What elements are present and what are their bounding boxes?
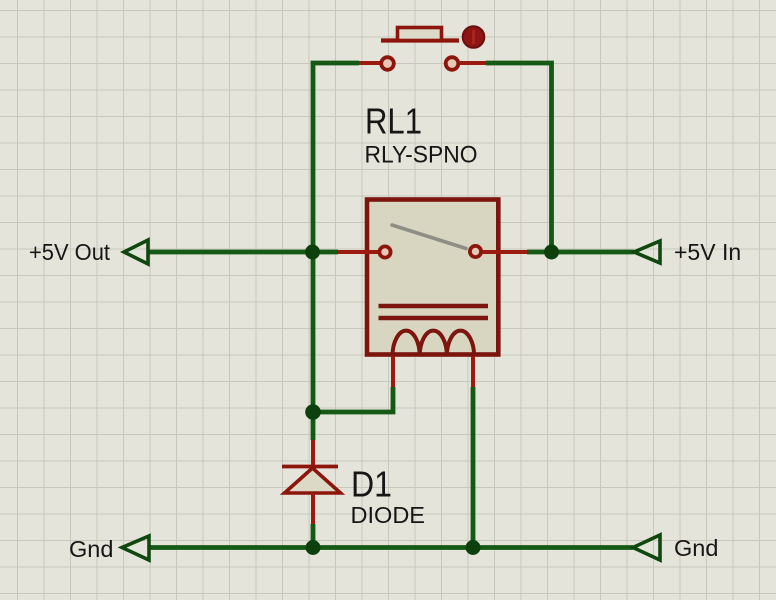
junction node coil elbow	[305, 404, 321, 420]
relay contact pin circle left	[379, 246, 390, 257]
relay contact pin circle right	[470, 246, 481, 257]
relay RL1 body	[367, 200, 498, 355]
diode triangle	[285, 468, 341, 493]
wire coil-right down	[471, 387, 476, 548]
svg-text:+5V In: +5V In	[674, 239, 741, 265]
pushbutton bar	[381, 38, 459, 42]
terminal Gnd right	[633, 535, 660, 560]
wire top-left green run	[313, 63, 359, 440]
pushbutton pin circle left	[381, 57, 394, 70]
wire coil-left elbow	[313, 387, 393, 412]
terminal Gnd left	[122, 536, 149, 560]
relay contact pin stubs red	[338, 250, 527, 254]
terminal +5V Out	[124, 240, 148, 264]
pushbutton cap	[398, 28, 442, 41]
junction node +5V Out / button column	[305, 245, 320, 260]
wire +5V Out horizontal	[148, 250, 338, 255]
relay separator bar 2	[379, 316, 489, 320]
terminal +5V In	[634, 241, 660, 263]
svg-text:RL1: RL1	[365, 101, 422, 142]
svg-text:D1: D1	[351, 464, 392, 505]
relay coil pin stubs red	[393, 356, 473, 387]
svg-text:RLY-SPNO: RLY-SPNO	[365, 142, 478, 169]
svg-text:DIODE: DIODE	[351, 502, 426, 528]
diode pin stub top red	[311, 440, 315, 465]
wire top-right green run	[486, 63, 552, 252]
wire ground rail	[149, 545, 633, 550]
diode cathode bar	[282, 465, 338, 469]
relay contact lever	[392, 225, 466, 249]
svg-text:Gnd: Gnd	[69, 536, 113, 562]
relay separator bar 1	[379, 304, 489, 308]
junction node diode-ground	[306, 540, 321, 555]
pushbutton pin circle right	[446, 57, 459, 70]
pushbutton actuator dot	[463, 26, 485, 48]
wire +5V In horizontal	[527, 250, 634, 255]
diode pin stub bottom red	[311, 493, 315, 524]
relay coil	[393, 331, 475, 356]
junction node +5V In / button column	[544, 245, 559, 260]
svg-text:Gnd: Gnd	[674, 535, 718, 561]
svg-text:+5V Out: +5V Out	[29, 239, 111, 265]
wire diode bottom green	[311, 524, 316, 548]
pushbutton red pin stubs	[359, 61, 486, 65]
junction node coil-right ground	[466, 540, 481, 555]
